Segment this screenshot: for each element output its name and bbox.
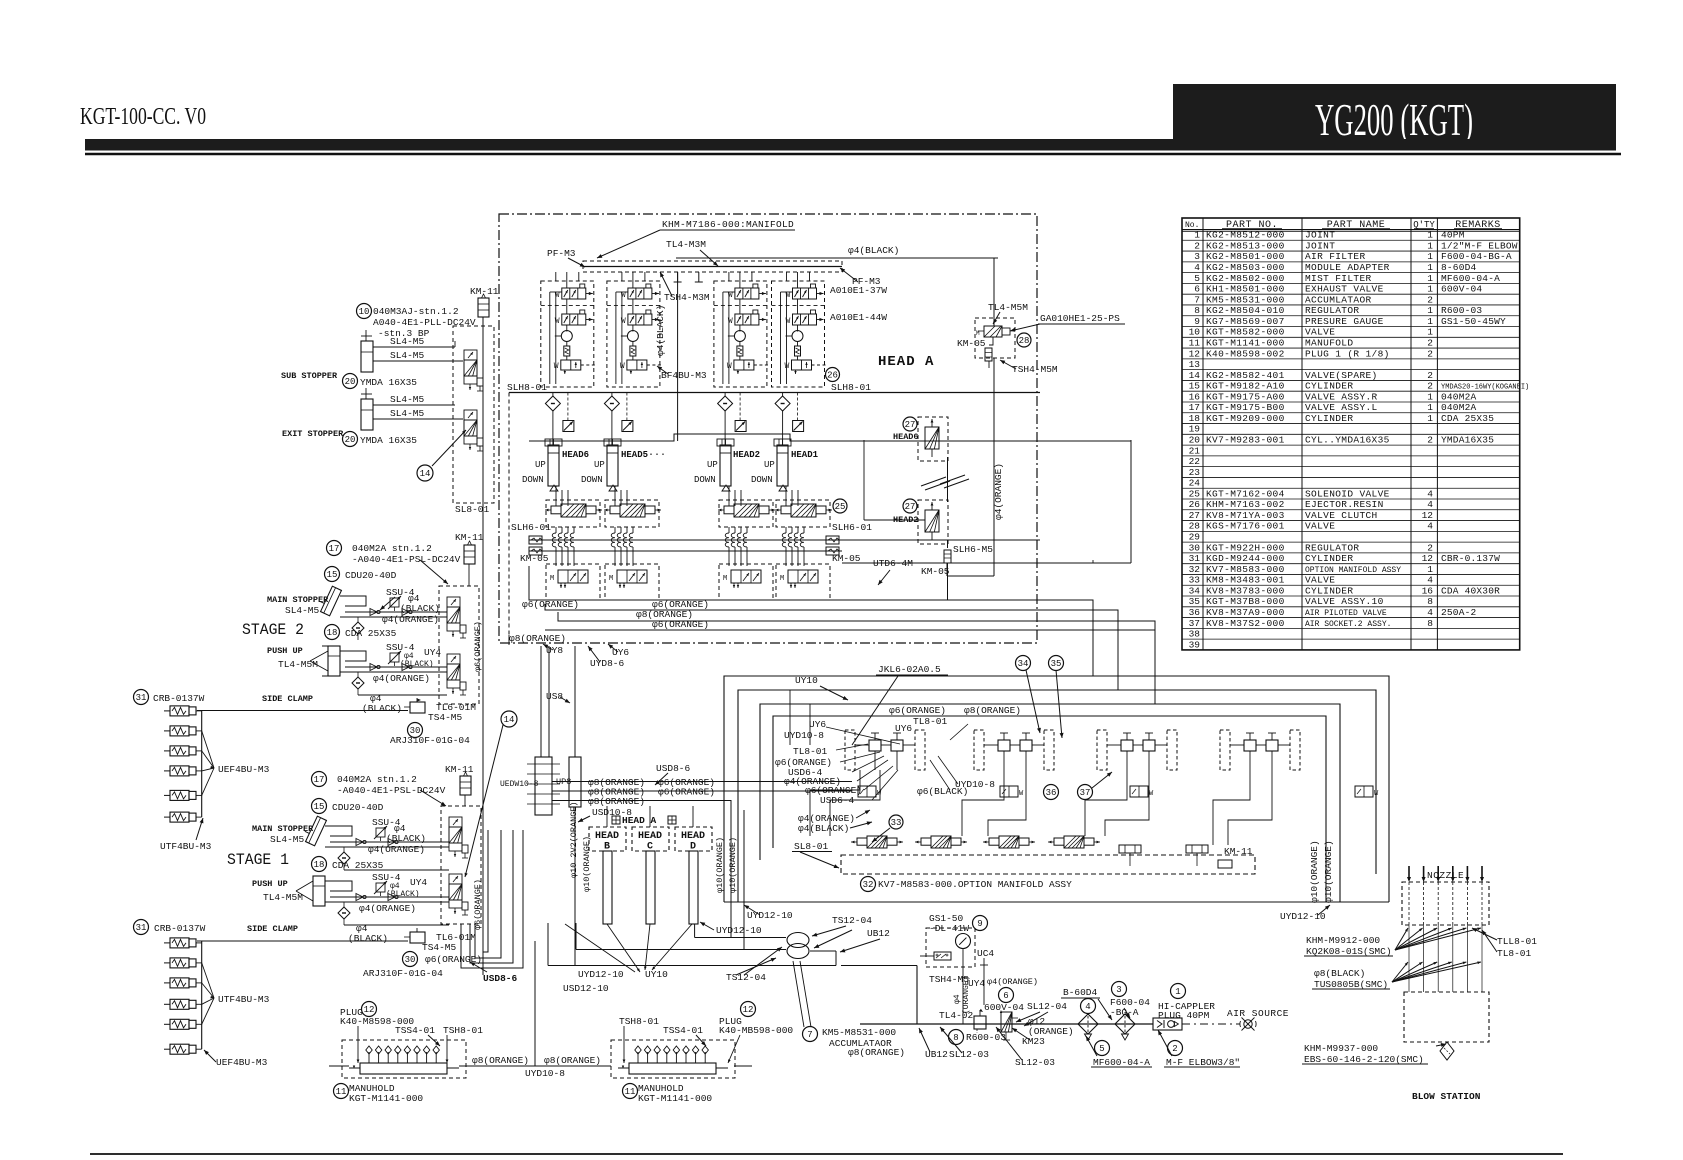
regulator R600-03	[974, 1016, 986, 1029]
svg-text:REGULATOR: REGULATOR	[1305, 542, 1359, 553]
svg-text:φ6(ORANGE): φ6(ORANGE)	[473, 621, 483, 672]
svg-text:15: 15	[327, 570, 338, 580]
nozzle manifold dashed box	[1402, 882, 1489, 925]
station 2 riser to bus	[632, 272, 634, 288]
mid collector wires option	[790, 690, 810, 745]
svg-text:6: 6	[1003, 991, 1008, 1001]
svg-text:28: 28	[1189, 521, 1201, 532]
svg-text:PLUG 40PM: PLUG 40PM	[1158, 1010, 1210, 1021]
svg-text:CBR-0.137W: CBR-0.137W	[1441, 553, 1500, 564]
svg-text:9: 9	[977, 919, 982, 929]
svg-text:25: 25	[1189, 488, 1201, 499]
svg-text:TL4-M5M: TL4-M5M	[263, 892, 303, 903]
svg-text:UB12: UB12	[867, 928, 890, 939]
svg-text:33: 33	[1189, 575, 1201, 586]
air supply bus PF-M3	[583, 261, 842, 272]
svg-text:(ORANGE): (ORANGE)	[1028, 1026, 1074, 1037]
ejector square 4	[793, 421, 804, 432]
svg-text:YMDA 16X35: YMDA 16X35	[360, 435, 417, 446]
svg-text:KHM-M7163-002: KHM-M7163-002	[1206, 499, 1285, 510]
pipe bundle crossing B	[569, 757, 581, 807]
valve station 4 box	[772, 281, 825, 387]
svg-text:UTF4BU-M3: UTF4BU-M3	[160, 841, 212, 852]
svg-text:JKL6-02A0.5: JKL6-02A0.5	[878, 664, 941, 675]
svg-text:2: 2	[1427, 381, 1433, 392]
wire right region vertical	[1130, 440, 1132, 563]
svg-text:NOZZLE: NOZZLE	[1427, 870, 1464, 881]
circled 10 with spec text	[357, 304, 372, 319]
svg-text:2: 2	[1172, 1044, 1177, 1054]
svg-text:HEAD A: HEAD A	[622, 815, 657, 826]
svg-text:ARJ310F-01G-04: ARJ310F-01G-04	[390, 735, 470, 746]
svg-text:3: 3	[1116, 985, 1121, 995]
sub stopper cylinder	[361, 341, 373, 372]
svg-text:R600-03: R600-03	[966, 1032, 1006, 1043]
svg-text:φ10(ORANGE): φ10(ORANGE)	[582, 836, 592, 892]
clamp cylinder W 2 upper group	[164, 730, 170, 732]
svg-text:5: 5	[1099, 1044, 1104, 1054]
svg-text:MIST FILTER: MIST FILTER	[1305, 273, 1372, 284]
cylinder cluster 3	[1097, 730, 1107, 770]
hose coils station 3	[728, 527, 730, 533]
svg-text:600V-04: 600V-04	[984, 1002, 1024, 1013]
exit stopper lines	[373, 404, 455, 406]
clamp cylinder W 6 upper group	[164, 816, 170, 818]
svg-text:UEF4BU-M3: UEF4BU-M3	[218, 764, 270, 775]
manifold valve bottom 3	[731, 570, 761, 583]
wires at accumulators	[694, 924, 696, 938]
svg-text:φ8(ORANGE): φ8(ORANGE)	[472, 1055, 529, 1066]
circled 15 stage1 CDU20-40D	[312, 799, 327, 814]
svg-text:KV7-M9283-001: KV7-M9283-001	[1206, 435, 1285, 446]
svg-text:KGT-M9182-A10: KGT-M9182-A10	[1206, 381, 1285, 392]
svg-text:30: 30	[405, 955, 416, 965]
svg-text:W: W	[877, 790, 882, 798]
svg-text:φ8(ORANGE): φ8(ORANGE)	[848, 1047, 905, 1058]
station 3 bottom valve	[734, 360, 754, 370]
svg-text:SLH8-01: SLH8-01	[507, 382, 547, 393]
svg-text:12: 12	[1422, 553, 1434, 564]
svg-text:φ4(ORANGE): φ4(ORANGE)	[359, 903, 416, 914]
svg-text:CDA 25X35: CDA 25X35	[345, 628, 397, 639]
wire phi4(ORANGE) vertical right	[993, 358, 995, 576]
svg-text:φ8(ORANGE): φ8(ORANGE)	[588, 796, 645, 807]
svg-text:KM8-M3483-001: KM8-M3483-001	[1206, 575, 1285, 586]
pilot valve 33-1	[857, 838, 867, 845]
circled 18 CDA 25X35 stage2	[325, 625, 340, 640]
bus drop ticks	[677, 272, 679, 282]
svg-text:20: 20	[345, 435, 356, 445]
main stopper cylinder stage1	[301, 814, 326, 846]
svg-text:38: 38	[1189, 629, 1201, 640]
station 2 gauge	[627, 331, 638, 342]
fitting TS4-M5 lower	[410, 932, 425, 943]
svg-text:1: 1	[1194, 230, 1200, 241]
station 4 gauge	[792, 331, 803, 342]
stage2 valve upper	[447, 597, 460, 607]
cylinder HEAD2	[720, 445, 731, 486]
cylinder cluster 1	[845, 730, 855, 770]
circled 6 600V-04	[999, 988, 1014, 1003]
collector wires bottom of manifold	[529, 566, 1093, 676]
speed controller SSU-4 stage2 upper	[390, 598, 399, 607]
svg-text:1: 1	[1427, 305, 1433, 316]
svg-text:37: 37	[1189, 618, 1200, 629]
svg-text:CDA 25X35: CDA 25X35	[1441, 413, 1494, 424]
svg-text:16: 16	[1189, 391, 1201, 402]
svg-text:KGT-100-CC. V0: KGT-100-CC. V0	[80, 104, 206, 130]
svg-text:SLH8-01: SLH8-01	[831, 382, 871, 393]
svg-text:TL8-01: TL8-01	[913, 716, 948, 727]
exhaust valve KM23	[1001, 1012, 1012, 1032]
svg-text:26: 26	[827, 371, 838, 381]
svg-text:φ10(ORANGE): φ10(ORANGE)	[728, 837, 738, 893]
push up cylinder stage1	[313, 876, 325, 906]
svg-text:17: 17	[329, 544, 340, 554]
svg-text:(BLACK): (BLACK)	[348, 933, 388, 944]
svg-text:φ4(ORANGE): φ4(ORANGE)	[993, 463, 1004, 520]
circled 28	[1017, 333, 1031, 347]
circled 30 lower	[403, 952, 418, 967]
svg-text:No.: No.	[1185, 221, 1199, 230]
svg-text:1: 1	[1175, 987, 1180, 997]
clamp cylinder W 3 upper group	[164, 750, 170, 752]
stage1 valve lower	[449, 874, 462, 884]
svg-text:2: 2	[1427, 337, 1433, 348]
label garbled HEAD A title	[612, 816, 620, 824]
HEAD D cylinder	[689, 851, 698, 924]
side clamp bus lower	[197, 940, 408, 942]
exit stopper cylinder	[361, 399, 373, 430]
svg-text:15: 15	[1189, 381, 1201, 392]
pressure gauge GS1-50	[956, 934, 971, 949]
stage1 valve upper	[449, 817, 462, 827]
svg-text:1: 1	[1427, 391, 1433, 402]
svg-text:AIR PILOTED VALVE: AIR PILOTED VALVE	[1305, 609, 1387, 618]
svg-text:KGD-M9244-000: KGD-M9244-000	[1206, 553, 1285, 564]
svg-text:KGT-M7162-004: KGT-M7162-004	[1206, 488, 1285, 499]
cylinder HEAD6	[548, 445, 559, 486]
check valve diamond 3	[718, 396, 733, 411]
svg-text:7: 7	[807, 1030, 812, 1040]
svg-text:VALVE: VALVE	[1305, 327, 1335, 338]
svg-text:GS1-50-45WY: GS1-50-45WY	[1441, 316, 1506, 327]
svg-text:CYLINDER: CYLINDER	[1305, 381, 1353, 392]
solenoid valve 25-3	[724, 506, 734, 514]
exit stopper valve	[464, 410, 477, 420]
svg-text:AIR SOURCE: AIR SOURCE	[1227, 1008, 1289, 1019]
nozzle tube wires	[1408, 925, 1410, 992]
wire phi10 pair down-left	[730, 800, 732, 938]
svg-text:φ10(ORANGE): φ10(ORANGE)	[1323, 840, 1334, 903]
clamp cylinder W 4 upper group	[164, 770, 170, 772]
blow nozzle diamond	[1440, 1042, 1454, 1060]
parts table	[1182, 218, 1520, 650]
svg-text:SL4-M5: SL4-M5	[390, 350, 425, 361]
option manifold dashed boundary	[841, 855, 1255, 874]
station 2 solenoid valve A	[628, 288, 652, 299]
station 3 pilot dashed wire	[754, 364, 770, 366]
svg-text:HEAD: HEAD	[681, 831, 705, 842]
circled 2 M-F ELBOW	[1168, 1041, 1183, 1056]
clutch valve 27 lower symbol	[925, 510, 939, 532]
air source symbol	[1244, 1020, 1252, 1028]
svg-text:φ10(ORANGE): φ10(ORANGE)	[715, 837, 725, 893]
station 3 filter	[737, 346, 743, 356]
station 3 solenoid valve B	[735, 314, 759, 325]
solenoid valve 25-2 box	[605, 500, 659, 527]
svg-text:B-60D4: B-60D4	[1063, 987, 1098, 998]
svg-text:35: 35	[1189, 596, 1201, 607]
svg-text:2: 2	[1427, 370, 1433, 381]
svg-text:SUB STOPPER: SUB STOPPER	[281, 371, 338, 381]
svg-text:TUS0805B(SMC): TUS0805B(SMC)	[1314, 979, 1388, 990]
circled 31 CRB-0137W lower	[134, 920, 149, 935]
svg-text:KHM-M9937-000: KHM-M9937-000	[1304, 1043, 1378, 1054]
svg-text:KM-05: KM-05	[520, 553, 549, 564]
svg-text:K40-M8598-000: K40-M8598-000	[340, 1016, 414, 1027]
svg-text:25: 25	[835, 502, 846, 512]
svg-text:SL4-M5: SL4-M5	[390, 394, 425, 405]
circled 5 MF600-04-A	[1095, 1041, 1110, 1056]
svg-text:UY4: UY4	[410, 877, 427, 888]
svg-text:BF4BU-M3: BF4BU-M3	[661, 370, 707, 381]
svg-text:CDU20-40D: CDU20-40D	[332, 802, 384, 813]
clamp cylinder W 1 upper group	[164, 710, 170, 712]
cluster drop wires	[874, 751, 876, 770]
svg-text:φ8(ORANGE): φ8(ORANGE)	[509, 633, 566, 644]
cylinder HEAD1	[777, 445, 788, 486]
svg-text:M: M	[780, 575, 784, 583]
nozzle arrows	[1408, 866, 1410, 880]
svg-text:7: 7	[1194, 294, 1200, 305]
svg-text:(BLACK): (BLACK)	[400, 603, 440, 614]
svg-text:UP: UP	[764, 460, 775, 470]
svg-text:W: W	[785, 362, 790, 371]
sub stopper lines	[373, 346, 455, 348]
svg-text:KGS-M7176-001: KGS-M7176-001	[1206, 521, 1285, 532]
pilot valve 33-4	[1054, 838, 1064, 845]
svg-text:HEAD6: HEAD6	[893, 432, 919, 442]
station 3 solenoid valve A	[735, 288, 759, 299]
svg-text:040M2A stn.1.2: 040M2A stn.1.2	[352, 543, 432, 554]
svg-text:KM23: KM23	[1022, 1036, 1045, 1047]
svg-text:φ8(BLACK): φ8(BLACK)	[1314, 968, 1365, 979]
svg-text:1: 1	[1427, 316, 1433, 327]
svg-text:2: 2	[1194, 240, 1200, 251]
fitting T pair on manifold	[1119, 845, 1141, 853]
svg-text:KH1-M8501-000: KH1-M8501-000	[1206, 284, 1285, 295]
pilot valve 33-2	[921, 838, 931, 845]
check valve diamond 2	[604, 396, 619, 411]
svg-text:UYD12-10: UYD12-10	[716, 925, 762, 936]
svg-text:DOWN: DOWN	[581, 475, 603, 485]
svg-text:CYLINDER: CYLINDER	[1305, 413, 1353, 424]
svg-text:(BLACK): (BLACK)	[400, 660, 434, 669]
svg-text:4: 4	[1427, 488, 1433, 499]
circled 15 CDU20-40D	[325, 567, 340, 582]
svg-text:HEAD: HEAD	[638, 831, 662, 842]
stage1 valve dashed box	[441, 806, 481, 924]
svg-text:21: 21	[1189, 445, 1201, 456]
svg-text:MAIN STOPPER: MAIN STOPPER	[252, 824, 314, 834]
svg-text:M: M	[550, 575, 554, 583]
svg-text:GA010HE1-25-PS: GA010HE1-25-PS	[1040, 313, 1120, 324]
station 1 riser to bus	[566, 272, 568, 288]
svg-text:KGT-M922H-000: KGT-M922H-000	[1206, 542, 1285, 553]
bus line KM-05 upper	[529, 539, 1040, 541]
svg-text:4: 4	[1427, 575, 1433, 586]
leader 17 stage1	[420, 790, 446, 806]
svg-text:φ10 2V2(ORANGE): φ10 2V2(ORANGE)	[569, 801, 579, 878]
collector lines lower wboxes	[201, 941, 203, 1049]
svg-text:KV8-M71YA-003: KV8-M71YA-003	[1206, 510, 1285, 521]
svg-text:KG2-M8502-000: KG2-M8502-000	[1206, 273, 1285, 284]
svg-text:PLUG 1 (R 1/8): PLUG 1 (R 1/8)	[1305, 348, 1390, 359]
svg-text:UY6: UY6	[809, 719, 826, 730]
svg-text:UEDW10-8: UEDW10-8	[500, 780, 539, 789]
svg-text:1: 1	[1427, 327, 1433, 338]
wires to valve 25-4	[785, 486, 787, 506]
svg-text:12: 12	[1189, 348, 1201, 359]
svg-text:35: 35	[1051, 659, 1062, 669]
ejector circled 26	[826, 368, 840, 382]
svg-text:15: 15	[314, 802, 325, 812]
circled 27 upper	[903, 417, 917, 431]
stage2 valve dashed box	[439, 586, 479, 704]
speed controller SSU-4 stage1 upper	[376, 828, 385, 837]
wire switch to riser	[920, 955, 934, 957]
svg-text:1: 1	[1427, 564, 1433, 575]
svg-text:13: 13	[1189, 359, 1201, 370]
circled 36	[1044, 785, 1059, 800]
svg-text:US8: US8	[546, 691, 563, 702]
svg-text:MAIN STOPPER: MAIN STOPPER	[267, 595, 329, 605]
svg-text:KG2-M8503-000: KG2-M8503-000	[1206, 262, 1285, 273]
svg-text:φ6(ORANGE): φ6(ORANGE)	[473, 879, 483, 930]
loop wire 1	[724, 676, 1389, 902]
svg-text:φ6(ORANGE): φ6(ORANGE)	[658, 787, 715, 798]
ejector square 2	[622, 421, 633, 432]
svg-text:KG2-M8512-000: KG2-M8512-000	[1206, 230, 1285, 241]
circled 20 upper YMDA 16X35	[343, 374, 358, 389]
svg-text:30: 30	[1189, 542, 1201, 553]
svg-text:34: 34	[1189, 585, 1201, 596]
svg-text:14: 14	[1189, 370, 1201, 381]
svg-text:KM-11: KM-11	[445, 764, 474, 775]
HEAD C cylinder	[646, 851, 655, 924]
svg-text:φ8(ORANGE): φ8(ORANGE)	[544, 1055, 601, 1066]
svg-text:2: 2	[1427, 542, 1433, 553]
svg-text:UC4: UC4	[977, 948, 994, 959]
svg-text:32: 32	[1189, 564, 1201, 575]
svg-text:3: 3	[1194, 251, 1200, 262]
clutch valve 27 upper box	[918, 417, 948, 461]
svg-text:CYLINDER: CYLINDER	[1305, 553, 1353, 564]
svg-text:KG2-M8582-401: KG2-M8582-401	[1206, 370, 1285, 381]
push up cylinder stage2	[328, 646, 340, 676]
stage2 main stopper plumbing	[340, 596, 366, 606]
svg-text:UB12: UB12	[925, 1049, 948, 1060]
svg-text:EXHAUST VALVE: EXHAUST VALVE	[1305, 284, 1384, 295]
HEAD B box	[589, 827, 626, 851]
manifold valve bottom 2	[617, 570, 647, 583]
svg-text:TSH8-01: TSH8-01	[443, 1025, 483, 1036]
manuhold strip 2	[611, 1040, 735, 1078]
svg-text:JOINT: JOINT	[1305, 240, 1335, 251]
svg-text:040M2A: 040M2A	[1441, 402, 1477, 413]
station 3 riser to bus	[739, 272, 741, 288]
svg-text:11: 11	[336, 1087, 347, 1097]
svg-text:KHM-M9912-000: KHM-M9912-000	[1306, 935, 1380, 946]
svg-text:36: 36	[1046, 788, 1057, 798]
circled 32 label option manifold assy	[861, 877, 876, 892]
svg-text:KG7-M8569-007: KG7-M8569-007	[1206, 316, 1285, 327]
valve station 2 box	[607, 281, 660, 387]
svg-text:VALVE ASSY.L: VALVE ASSY.L	[1305, 402, 1378, 413]
svg-text:TS12-04: TS12-04	[832, 915, 872, 926]
air source dash line	[1182, 1023, 1240, 1025]
stage1 pushup plumbing	[325, 881, 352, 891]
svg-text:32: 32	[863, 880, 874, 890]
manifold boundary KHM-M7186-000 dash-dot box	[499, 214, 1037, 643]
valve 28 assembly box	[975, 318, 1015, 358]
pressure gauge unit GS1-50 box	[926, 928, 975, 967]
svg-text:1: 1	[1427, 273, 1433, 284]
collector lines upper wboxes	[201, 711, 203, 818]
svg-text:UYD10-8: UYD10-8	[525, 1068, 565, 1079]
manuhold strip 1	[342, 1040, 466, 1078]
hose coils station 2	[614, 527, 616, 533]
svg-text:2: 2	[1427, 435, 1433, 446]
svg-text:UY8: UY8	[546, 645, 563, 656]
svg-text:20: 20	[1189, 435, 1201, 446]
svg-text:OPTION MANIFOLD ASSY: OPTION MANIFOLD ASSY	[1305, 566, 1401, 575]
solenoid valve 25-1	[551, 506, 561, 514]
svg-text:MANUFOLD: MANUFOLD	[1305, 337, 1353, 348]
svg-text:HEAD5: HEAD5	[621, 450, 648, 460]
valve 28 symbol	[984, 326, 1002, 337]
clamp cylinder W 5 upper group	[164, 794, 170, 796]
svg-text:HEAD1: HEAD1	[791, 450, 819, 460]
svg-text:TSH8-01: TSH8-01	[619, 1016, 659, 1027]
svg-text:CDU20-40D: CDU20-40D	[345, 570, 397, 581]
circled 14 second	[501, 711, 517, 727]
svg-text:18: 18	[327, 628, 338, 638]
svg-text:SL8-01: SL8-01	[455, 504, 490, 515]
svg-text:10: 10	[359, 307, 370, 317]
svg-text:DOWN: DOWN	[522, 475, 544, 485]
circled 9	[973, 916, 988, 931]
main stopper cylinder stage2	[316, 584, 341, 616]
wire UYD8-6 vertical	[548, 646, 550, 757]
clamp cylinder W 1 lower group	[164, 942, 170, 944]
svg-text:11: 11	[625, 1087, 636, 1097]
svg-text:1: 1	[1427, 413, 1433, 424]
station 1 pilot dashed wire	[581, 364, 597, 366]
svg-text:φ4(ORANGE): φ4(ORANGE)	[368, 844, 425, 855]
svg-text:19: 19	[1189, 424, 1201, 435]
svg-text:φ4(ORANGE): φ4(ORANGE)	[382, 614, 439, 625]
svg-text:UYD10-8: UYD10-8	[955, 779, 995, 790]
svg-text:-DL-41W: -DL-41W	[929, 923, 969, 934]
svg-text:φ4(ORANGE): φ4(ORANGE)	[987, 977, 1038, 987]
fitting KM-05 left pair	[529, 536, 542, 544]
wire UY8 vertical	[540, 646, 542, 757]
circled 17 stage1 spec	[312, 772, 327, 787]
svg-text:KHM-M7186-000:MANIFOLD: KHM-M7186-000:MANIFOLD	[662, 219, 794, 230]
svg-text:TLL8-01: TLL8-01	[1497, 936, 1537, 947]
